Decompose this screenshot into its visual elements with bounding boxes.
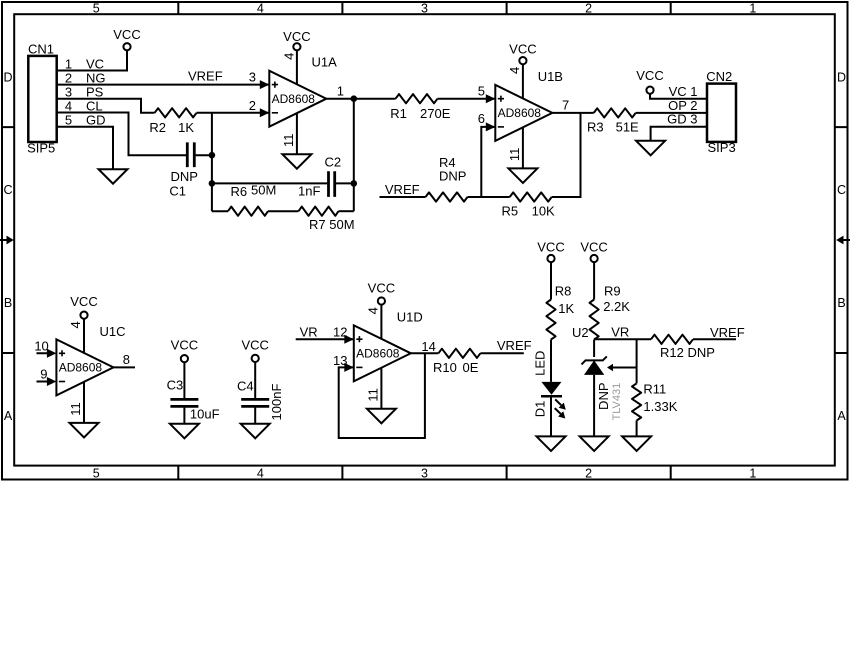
wire LED to ground	[550, 396, 552, 436]
op-amp U1D	[333, 305, 436, 409]
svg-text:270E: 270E	[420, 106, 451, 121]
resistor R5	[502, 192, 556, 218]
ground at D1	[537, 436, 566, 451]
wire R3 to CN2	[636, 112, 707, 114]
wire R6 to R7	[268, 210, 299, 212]
svg-text:3: 3	[421, 466, 428, 480]
net label VR at U2	[594, 324, 651, 339]
svg-text:VREF: VREF	[188, 69, 223, 84]
wire R11 to ground	[636, 421, 638, 437]
svg-text:U1C: U1C	[100, 324, 126, 339]
capacitor C3	[167, 362, 220, 424]
svg-text:CN2: CN2	[706, 69, 732, 84]
svg-text:3: 3	[65, 85, 72, 100]
wire GD to ground	[57, 127, 113, 170]
capacitor C1	[169, 142, 198, 198]
net stub VR to U1D	[296, 325, 354, 340]
junction node C2 row right	[351, 180, 358, 187]
svg-text:13: 13	[333, 353, 347, 368]
sheet marker arrow right	[836, 236, 850, 245]
svg-text:VCC: VCC	[368, 281, 395, 296]
power VCC at CN1	[113, 27, 140, 50]
svg-text:PS: PS	[86, 85, 104, 100]
svg-text:2: 2	[65, 70, 72, 85]
svg-text:TLV431: TLV431	[611, 383, 623, 421]
svg-text:1K: 1K	[558, 301, 574, 316]
wire VCC to CN2 VC	[650, 94, 707, 99]
svg-text:2.2K: 2.2K	[603, 299, 630, 314]
FRAME (decorative)	[2, 2, 848, 481]
svg-text:12: 12	[333, 325, 347, 340]
svg-text:A: A	[4, 409, 13, 423]
svg-text:R3: R3	[587, 120, 604, 135]
svg-text:VCC: VCC	[509, 42, 536, 57]
wire U1A output to R1	[326, 98, 395, 100]
power VCC at U1B	[509, 42, 536, 65]
wire CN2 GD to ground	[651, 127, 707, 141]
svg-text:U1D: U1D	[397, 310, 423, 325]
svg-text:3: 3	[421, 2, 428, 16]
svg-text:R8: R8	[555, 284, 572, 299]
svg-text:4: 4	[507, 67, 522, 74]
wire right vertical to U1A output	[353, 99, 355, 212]
svg-text:VCC: VCC	[537, 239, 564, 254]
svg-text:11: 11	[68, 402, 83, 416]
svg-text:LED: LED	[532, 351, 547, 376]
svg-text:2: 2	[585, 2, 592, 16]
CN1 pin 1 VC	[65, 56, 104, 71]
wire CL to C1	[57, 113, 186, 156]
ground at U1B	[508, 168, 537, 183]
power VCC at U1C	[70, 294, 97, 319]
ground at C4	[241, 424, 270, 439]
wire R5 to U1B output	[552, 113, 581, 197]
op-amp U1C	[34, 319, 135, 423]
svg-text:R6: R6	[231, 184, 248, 199]
net stub VREF at R10	[480, 338, 531, 353]
power VCC at U1D	[368, 281, 395, 305]
svg-text:R10: R10	[433, 360, 457, 375]
svg-text:NG: NG	[86, 70, 106, 85]
power VCC at CN2	[636, 68, 663, 94]
svg-text:B: B	[837, 296, 845, 310]
svg-text:R5: R5	[502, 204, 519, 219]
svg-text:CL: CL	[86, 99, 103, 114]
svg-text:4: 4	[365, 307, 380, 314]
svg-text:10: 10	[34, 338, 48, 353]
wire R8 to LED	[550, 340, 552, 382]
svg-text:DNP: DNP	[439, 169, 466, 184]
junction node C2 row left	[209, 180, 216, 187]
svg-text:C1: C1	[169, 183, 186, 198]
CN1 pin 5 GD	[65, 113, 106, 128]
svg-text:GD: GD	[86, 113, 106, 128]
svg-text:C3: C3	[167, 378, 184, 393]
wire U1D feedback	[339, 353, 425, 438]
svg-text:D1: D1	[532, 401, 547, 418]
resistor R8	[546, 284, 574, 340]
svg-text:1: 1	[749, 2, 756, 16]
svg-text:CN1: CN1	[28, 42, 54, 57]
svg-text:R2: R2	[149, 120, 166, 135]
svg-text:51E: 51E	[616, 120, 639, 135]
wire C1 to node	[196, 154, 212, 156]
svg-text:DNP: DNP	[596, 382, 611, 409]
connector CN2	[706, 69, 736, 155]
svg-text:SIP5: SIP5	[27, 141, 55, 156]
svg-text:4: 4	[281, 53, 296, 60]
wire R2 to U1A pin2	[197, 112, 269, 114]
svg-text:10K: 10K	[532, 204, 555, 219]
svg-text:5: 5	[478, 83, 485, 98]
svg-text:U1B: U1B	[538, 69, 563, 84]
LED D1	[532, 351, 566, 419]
wire node to C2	[212, 182, 327, 184]
svg-text:C2: C2	[325, 155, 342, 170]
svg-text:VREF: VREF	[710, 325, 745, 340]
wire VCC to R8	[550, 262, 552, 299]
power VCC at U1A	[283, 29, 310, 50]
resistor R10	[433, 349, 480, 375]
capacitor C2	[298, 155, 341, 199]
net stub VREF left	[380, 182, 426, 197]
wire U1B output to R3	[552, 112, 593, 114]
svg-text:4: 4	[68, 321, 83, 328]
svg-text:VC: VC	[86, 56, 104, 71]
ground at U2	[580, 436, 609, 451]
svg-text:GD 3: GD 3	[667, 112, 697, 127]
wire R9 to VR node	[593, 340, 595, 358]
svg-text:C: C	[837, 183, 846, 197]
svg-text:6: 6	[478, 111, 485, 126]
svg-text:VCC: VCC	[171, 338, 198, 353]
net stub VREF at R12	[693, 325, 745, 340]
resistor R7	[299, 207, 355, 233]
resistor R4	[426, 155, 468, 202]
svg-text:14: 14	[421, 339, 435, 354]
ground at R11	[622, 436, 651, 451]
svg-text:C: C	[3, 183, 12, 197]
svg-text:10uF: 10uF	[190, 406, 220, 421]
svg-text:SIP3: SIP3	[708, 140, 736, 155]
resistor R3	[587, 108, 639, 134]
svg-text:1nF: 1nF	[298, 184, 320, 199]
svg-text:11: 11	[507, 148, 522, 162]
ground at C3	[170, 424, 199, 439]
wire R1 to U1B pin5	[438, 98, 495, 100]
svg-text:VCC: VCC	[113, 27, 140, 42]
ground at U1A	[282, 154, 311, 169]
wire mid vertical node	[211, 113, 213, 211]
svg-text:VR: VR	[611, 324, 629, 339]
resistor R9	[590, 284, 631, 340]
svg-text:4: 4	[257, 466, 264, 480]
svg-text:1: 1	[337, 84, 344, 99]
wire U1B pin6 feedback bend	[481, 127, 495, 197]
svg-text:U1A: U1A	[312, 54, 338, 69]
resistor R12	[651, 335, 715, 360]
svg-text:11: 11	[365, 388, 380, 402]
wire C2 to node	[336, 182, 354, 184]
wire NG to U1A pin3	[57, 84, 269, 86]
svg-text:1K: 1K	[178, 120, 194, 135]
svg-text:2: 2	[585, 466, 592, 480]
capacitor C4	[237, 362, 284, 424]
svg-text:AD8608: AD8608	[356, 347, 400, 361]
svg-text:9: 9	[40, 367, 47, 382]
svg-text:8: 8	[123, 352, 130, 367]
svg-text:VCC: VCC	[580, 239, 607, 254]
svg-text:4: 4	[257, 2, 264, 16]
svg-text:VREF: VREF	[497, 338, 532, 353]
svg-text:1.33K: 1.33K	[643, 399, 677, 414]
wire VR node to R11	[636, 339, 638, 383]
svg-text:B: B	[4, 296, 12, 310]
wire U1D output to R10	[411, 352, 439, 354]
svg-text:50M: 50M	[251, 182, 276, 197]
svg-text:11: 11	[281, 134, 296, 148]
svg-text:AD8608: AD8608	[498, 106, 542, 120]
power VCC at R8	[537, 239, 564, 262]
sheet marker arrow left	[0, 236, 14, 245]
power VCC at C4	[241, 337, 268, 362]
svg-text:VREF: VREF	[385, 182, 420, 197]
svg-text:AD8608: AD8608	[59, 361, 103, 375]
wire U2 to ground	[593, 375, 595, 437]
svg-text:2: 2	[249, 98, 256, 113]
svg-text:R4: R4	[439, 155, 456, 170]
op-amp U1A	[249, 50, 344, 154]
svg-text:VCC: VCC	[70, 294, 97, 309]
svg-text:VCC: VCC	[241, 337, 268, 352]
CN1 pin 3 PS	[65, 85, 104, 100]
ground at CN1	[99, 169, 128, 184]
svg-text:1: 1	[65, 56, 72, 71]
wire PS to R2	[57, 99, 155, 113]
connector CN1	[27, 42, 57, 156]
svg-text:100nF: 100nF	[269, 384, 284, 421]
svg-text:R1: R1	[390, 106, 407, 121]
wire R7 to right vertical	[339, 210, 354, 212]
svg-text:3: 3	[249, 70, 256, 85]
junction U1A output	[351, 95, 358, 102]
svg-text:DNP: DNP	[171, 169, 198, 184]
svg-text:5: 5	[93, 2, 100, 16]
svg-text:0E: 0E	[463, 360, 479, 375]
CN1 pin 2 NG	[65, 70, 106, 85]
svg-text:5: 5	[65, 113, 72, 128]
svg-text:A: A	[837, 409, 846, 423]
wire R4 to R5	[468, 196, 510, 198]
svg-text:R9: R9	[604, 284, 621, 299]
svg-text:R12 DNP: R12 DNP	[660, 345, 715, 360]
wire R6 row left	[212, 210, 228, 212]
svg-text:R11: R11	[643, 382, 666, 397]
ground at U1D	[367, 409, 396, 424]
svg-text:D: D	[837, 70, 846, 84]
resistor R1	[390, 94, 450, 121]
svg-text:D: D	[3, 70, 12, 84]
ground at CN2	[636, 141, 665, 156]
svg-text:AD8608: AD8608	[272, 92, 316, 106]
svg-text:VCC: VCC	[636, 68, 663, 83]
wire VC to VCC	[57, 50, 127, 70]
svg-text:5: 5	[93, 466, 100, 480]
resistor R2	[149, 108, 196, 135]
svg-text:1: 1	[749, 466, 756, 480]
resistor R6	[228, 182, 276, 215]
wire VCC to R9	[593, 262, 595, 299]
shunt reference U2 TLV431	[572, 325, 637, 420]
op-amp U1B	[478, 64, 569, 168]
svg-text:VCC: VCC	[283, 29, 310, 44]
CN1 pin 4 CL	[65, 99, 103, 114]
svg-text:VR: VR	[300, 325, 318, 340]
power VCC at C3	[171, 338, 198, 363]
power VCC at R9	[580, 239, 607, 262]
resistor R11	[632, 382, 678, 421]
junction node C1	[209, 152, 216, 159]
svg-text:C4: C4	[237, 378, 254, 393]
svg-text:R7 50M: R7 50M	[309, 217, 355, 232]
svg-text:7: 7	[562, 98, 569, 113]
svg-text:4: 4	[65, 99, 72, 114]
svg-text:U2: U2	[572, 325, 589, 340]
ground at U1C	[70, 423, 99, 438]
